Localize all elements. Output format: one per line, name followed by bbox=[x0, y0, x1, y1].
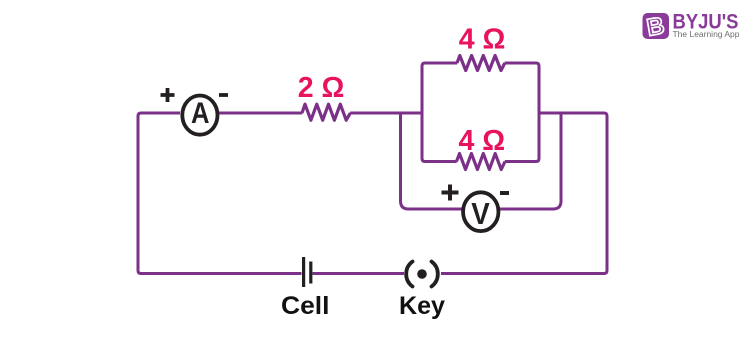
wire: right loop from parallel network down to key bbox=[441, 113, 607, 274]
wire: parallel bottom branch right bbox=[505, 113, 539, 162]
wire: parallel bottom branch left bbox=[422, 113, 457, 162]
key right contact arc bbox=[432, 262, 438, 287]
svg-text:Key: Key bbox=[399, 292, 445, 320]
BYJU'S logo icon square bbox=[643, 13, 670, 39]
battery cell right plate (short) bbox=[309, 262, 312, 284]
svg-text:4 Ω: 4 Ω bbox=[459, 23, 506, 55]
ammeter + terminal sign bbox=[161, 88, 175, 102]
wire: parallel top branch left bbox=[422, 63, 457, 113]
svg-text:2 Ω: 2 Ω bbox=[298, 72, 345, 104]
wire: ammeter to resistor R1 bbox=[218, 112, 302, 115]
battery cell left plate (long) bbox=[302, 257, 305, 287]
voltmeter V1 body bbox=[463, 192, 498, 231]
wire: voltmeter branch bbox=[401, 113, 562, 209]
wire: R1 to parallel network (node with voltmeter tap) bbox=[350, 112, 422, 115]
wire: left loop from ammeter around bottom-left to cell bbox=[138, 113, 302, 274]
svg-text:A: A bbox=[191, 97, 210, 130]
key left contact arc bbox=[406, 262, 412, 287]
svg-text:V: V bbox=[471, 196, 490, 231]
ammeter - terminal sign bbox=[219, 93, 228, 97]
voltmeter + terminal sign bbox=[442, 185, 459, 201]
svg-text:4 Ω: 4 Ω bbox=[458, 125, 505, 157]
wire: cell to key bbox=[313, 272, 405, 275]
ammeter A1 body bbox=[182, 96, 217, 135]
resistor R2 4 ohm zigzag (top branch) bbox=[457, 56, 505, 71]
svg-text:The Learning App: The Learning App bbox=[673, 29, 740, 39]
resistor R3 4 ohm zigzag (bottom branch) bbox=[457, 154, 506, 170]
svg-text:Cell: Cell bbox=[281, 292, 330, 320]
wire: parallel top branch right bbox=[505, 63, 539, 113]
key dot bbox=[417, 269, 427, 279]
resistor R1 2 ohm zigzag bbox=[302, 104, 350, 120]
voltmeter - terminal sign bbox=[500, 191, 509, 195]
